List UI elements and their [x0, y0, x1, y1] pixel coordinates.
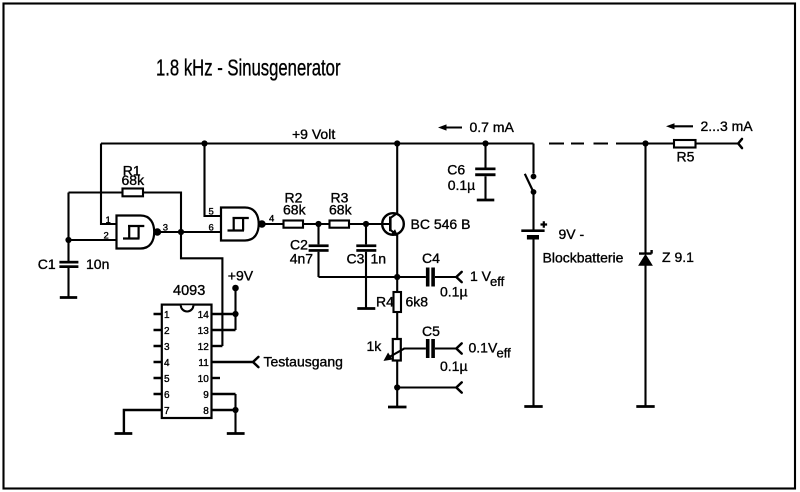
arrow 2...3 mA — [666, 118, 753, 134]
node junction dot pin2/C1 — [65, 237, 71, 243]
wire R4 to pot — [396, 312, 398, 339]
wire R1 right lead down to node A — [143, 193, 181, 233]
svg-text:1.8 kHz - Sinusgenerator: 1.8 kHz - Sinusgenerator — [156, 56, 341, 81]
wire zener to ground — [644, 265, 646, 406]
pin number 13 IC — [198, 326, 210, 337]
battery B1 9V Blockbatterie — [521, 221, 623, 265]
ground IC left — [115, 432, 133, 435]
resistor R3 — [329, 189, 353, 227]
ground zener — [636, 405, 654, 408]
svg-text:11: 11 — [198, 358, 209, 369]
svg-text:C6: C6 — [447, 162, 465, 178]
wire C2 bottom to emitter node — [319, 276, 398, 278]
pin 14 wire — [212, 313, 236, 315]
svg-text:6k8: 6k8 — [406, 294, 429, 310]
wire rail corner down to switch — [532, 144, 534, 174]
svg-text:1: 1 — [106, 215, 111, 226]
node junction dot C3 top / base — [363, 221, 369, 227]
svg-text:4n7: 4n7 — [290, 251, 314, 267]
wire battery to ground — [532, 240, 534, 407]
terminal rail right end — [738, 139, 742, 148]
terminal ground reference — [456, 382, 461, 392]
node junction dot collector/rail — [394, 140, 400, 146]
capacitor C1 — [38, 256, 110, 297]
capacitor C2 — [290, 224, 329, 277]
svg-text:Z 9.1: Z 9.1 — [662, 249, 694, 265]
svg-text:0.7 mA: 0.7 mA — [470, 119, 515, 135]
svg-text:3: 3 — [164, 342, 170, 353]
resistor R1 — [122, 163, 146, 197]
IC U1 4093 body — [162, 283, 212, 418]
node junction dot output ref — [394, 384, 400, 390]
wire +9V to pins 14/13 — [234, 288, 236, 330]
pin number 6 — [209, 223, 214, 234]
wire emitter down to R4 — [396, 235, 398, 292]
wire +9V rail solid left — [101, 142, 534, 144]
svg-text:R4: R4 — [376, 294, 394, 310]
svg-text:2: 2 — [164, 326, 170, 337]
pin number 2 IC — [164, 326, 170, 337]
svg-text:4093: 4093 — [173, 283, 205, 299]
terminal 0.1 Veff — [456, 340, 511, 361]
svg-text:eff: eff — [490, 274, 505, 289]
wire R1 left lead — [69, 191, 123, 193]
node +9 Volt label — [292, 126, 335, 142]
svg-text:2...3 mA: 2...3 mA — [701, 118, 754, 134]
pin 12 wire — [212, 345, 223, 347]
svg-text:Blockbatterie: Blockbatterie — [543, 250, 624, 266]
wire +9V rail dashed — [549, 142, 608, 144]
svg-text:13: 13 — [198, 326, 210, 337]
arrow 0.7 mA — [438, 119, 515, 135]
node junction dot C6/rail — [482, 140, 488, 146]
node junction dot C2 top — [315, 221, 321, 227]
pin number 3 IC — [164, 342, 170, 353]
svg-text:5: 5 — [209, 206, 214, 217]
pin number 1 — [106, 215, 111, 226]
gate U1A (4093 Schmitt NAND) — [117, 216, 161, 249]
svg-text:BC 546 B: BC 546 B — [411, 216, 471, 232]
gate U1B (4093 Schmitt NAND) — [221, 208, 265, 241]
wire +9V rail solid right — [616, 142, 738, 144]
pin 8 wire — [212, 409, 236, 411]
wire gate2 out to R2 — [265, 223, 284, 225]
svg-text:12: 12 — [198, 342, 210, 353]
svg-text:68k: 68k — [283, 202, 307, 218]
svg-text:9V -: 9V - — [559, 226, 585, 242]
svg-text:7: 7 — [164, 406, 170, 417]
pin 9 wire — [212, 393, 236, 395]
ground C1 — [60, 296, 77, 299]
svg-text:68k: 68k — [122, 172, 146, 188]
svg-text:8: 8 — [203, 406, 209, 417]
svg-text:0.1µ: 0.1µ — [440, 284, 468, 300]
terminal 1 Veff — [456, 268, 504, 289]
pin number 7 IC — [164, 406, 170, 417]
pin number 3 — [163, 222, 168, 233]
pin 13 wire — [212, 329, 236, 331]
node junction dot pin8 — [232, 407, 238, 413]
switch S1 — [525, 174, 537, 195]
svg-text:10n: 10n — [86, 256, 109, 272]
wire rail to zener — [644, 144, 646, 253]
svg-text:5: 5 — [164, 374, 170, 385]
potentiometer P1 1k — [367, 338, 405, 361]
svg-text:0.1V: 0.1V — [469, 340, 498, 356]
capacitor C6 — [447, 144, 495, 200]
ground C6 — [477, 199, 495, 202]
svg-text:+9 Volt: +9 Volt — [292, 126, 335, 142]
svg-text:10: 10 — [198, 374, 210, 385]
pin number 1 IC — [164, 310, 170, 321]
pin number 10 IC — [198, 374, 210, 385]
wire pin2 / C1 / R1-left vertical — [69, 193, 117, 262]
resistor R2 — [283, 189, 307, 227]
pin number 5 IC — [164, 374, 170, 385]
svg-text:68k: 68k — [329, 202, 353, 218]
node junction dot emitter/C4 — [394, 274, 400, 280]
transistor Q1 BC 546 B — [366, 213, 470, 235]
wire R3 to base — [349, 223, 389, 225]
zener diode D1 Z 9.1 — [639, 249, 694, 265]
wire node A down to IC pin 12 — [181, 232, 222, 346]
svg-text:eff: eff — [497, 346, 512, 361]
svg-text:1k: 1k — [367, 338, 383, 354]
wire collector to rail — [396, 144, 398, 214]
svg-text:4: 4 — [164, 358, 170, 369]
node junction dot rail/pin5 — [201, 140, 207, 146]
svg-text:9: 9 — [203, 390, 209, 401]
svg-text:C3: C3 — [347, 251, 365, 267]
ground battery — [524, 405, 542, 408]
pin number 4 IC — [164, 358, 170, 369]
pin stub 10 — [212, 377, 221, 379]
svg-text:14: 14 — [198, 310, 210, 321]
pin number 11 IC — [198, 358, 209, 369]
svg-text:0.1µ: 0.1µ — [448, 177, 476, 193]
ground C3 — [357, 307, 375, 310]
pin number 4 — [269, 214, 274, 225]
pin number 8 IC — [203, 406, 209, 417]
wire pins 9/8 to ground — [234, 394, 236, 433]
pin number 5 — [209, 206, 214, 217]
svg-text:1n: 1n — [371, 251, 387, 267]
svg-text:Testausgang: Testausgang — [264, 354, 343, 370]
svg-text:+9V: +9V — [228, 268, 254, 284]
pin stubs left 1-6 — [154, 314, 162, 394]
node junction dot pin14 — [232, 311, 238, 317]
node A junction dot — [178, 229, 184, 235]
pin number 9 IC — [203, 390, 209, 401]
wire left vertical to pin 1 — [101, 144, 117, 225]
node +9V supply — [228, 268, 254, 292]
wire R2-R3 — [303, 223, 330, 225]
title — [156, 56, 341, 81]
wire pot wiper to C5 — [404, 347, 426, 349]
svg-text:C4: C4 — [422, 250, 440, 266]
svg-text:1 V: 1 V — [470, 268, 492, 284]
wire gate1 output to gate2 pin6 — [161, 231, 221, 233]
capacitor C3 — [347, 224, 387, 308]
pin number 6 IC — [164, 390, 170, 401]
svg-text:6: 6 — [164, 390, 170, 401]
wire switch to battery — [532, 194, 534, 230]
pin number 2 — [104, 230, 109, 241]
ground pot chain — [388, 406, 407, 409]
wire pot bottom to ground — [396, 361, 398, 407]
svg-text:0.1µ: 0.1µ — [440, 358, 468, 374]
pin number 14 IC — [198, 310, 210, 321]
svg-text:C5: C5 — [422, 323, 440, 339]
svg-text:R5: R5 — [677, 149, 695, 165]
svg-text:6: 6 — [209, 223, 214, 234]
pin 7 wire to ground — [124, 410, 162, 433]
svg-text:2: 2 — [104, 230, 109, 241]
ground IC right — [227, 432, 245, 435]
svg-text:C1: C1 — [38, 256, 56, 272]
capacitor C4 — [397, 250, 467, 300]
svg-text:1: 1 — [164, 310, 170, 321]
resistor R5 — [674, 140, 696, 165]
pin 11 wire Testausgang — [212, 361, 253, 363]
wire output ground reference — [397, 386, 455, 388]
capacitor C5 — [422, 323, 468, 374]
terminal Testausgang — [253, 354, 343, 370]
resistor R4 — [376, 292, 428, 312]
pin number 12 IC — [198, 342, 210, 353]
node junction dot zener/rail — [642, 140, 648, 146]
wire rail to gate2 pin5 — [205, 144, 222, 217]
